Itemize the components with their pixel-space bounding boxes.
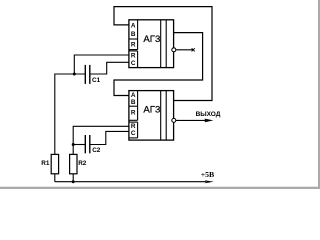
wire: +5V supply rail [55,181,206,183]
node: junction dot R2-C2-IC2R [72,143,75,146]
svg-text:+5В: +5В [201,170,215,179]
node: junction dot R1-C1-IC1R [73,73,76,76]
svg-text:R2: R2 [78,160,87,167]
wire: IC1 R pin to junction [74,55,129,74]
svg-text:B: B [131,31,136,38]
wire: R1/C1 junction wire [55,74,85,154]
resistor R2 [70,154,87,173]
svg-text:R: R [131,110,136,117]
wire: feedback loop IC2 Q output to IC1 pin A (top loop) [114,7,212,101]
wire: junction down to R2 [72,145,74,155]
op-amp U1: monostable multivibrator АГ3 (IC1) [129,20,174,68]
wire: R1 bottom lead [54,174,56,182]
svg-text:ВЫХОД: ВЫХОД [196,111,221,118]
node: IC1 inversion bubble [172,48,176,52]
wire: IC1 Q output to IC2 pin A loop [114,33,203,96]
wire: IC2 inverted output to ВЫХОД arrow [176,119,206,121]
window chrome: right gray border [318,0,320,189]
svg-text:C: C [131,60,136,67]
node: +5V arrowhead [205,180,214,183]
svg-text:R: R [131,53,136,60]
svg-text:R: R [131,41,136,48]
svg-text:R: R [131,123,136,130]
wire: IC2 R pin to junction [73,126,129,144]
svg-text:A: A [131,23,136,30]
capacitor C1 [85,65,100,84]
op-amp U2: monostable multivibrator АГ3 (IC2) [129,91,174,141]
wire: IC1 C pin to C1 right plate [90,62,128,74]
node: junction dot R2 to rail [72,180,75,183]
svg-text:АГ3: АГ3 [143,34,160,45]
svg-text:B: B [131,99,136,106]
svg-text:C1: C1 [92,77,101,84]
node: unused output x-mark [192,48,195,51]
svg-text:C2: C2 [92,147,101,154]
capacitor C2 [85,135,101,154]
resistor R1 [41,154,58,173]
wire: IC1 inverted output to unused x mark [176,49,194,51]
window chrome: bottom gray border [0,187,320,189]
node: IC2 inversion bubble [172,118,176,122]
wire: R2 bottom lead [72,174,74,182]
svg-text:R1: R1 [41,160,50,167]
svg-text:АГ3: АГ3 [143,105,160,116]
wire: C2 left plate to junction [73,144,85,146]
node: output arrowhead [205,119,214,123]
wire: IC2 C pin to C2 right plate [90,131,128,144]
svg-text:C: C [131,130,136,137]
